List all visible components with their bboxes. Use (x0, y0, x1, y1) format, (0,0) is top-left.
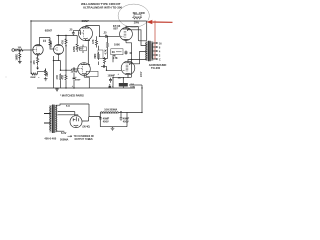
T1 core (53, 105, 54, 134)
resistor R3 470K plate load (49, 38, 51, 49)
callout circle highlight (118, 4, 149, 27)
callout resistor R-fb zigzag (132, 17, 141, 19)
resistor R13 100K (107, 42, 109, 49)
svg-text:6SN7: 6SN7 (82, 19, 90, 23)
driver cathode link vertical (88, 41, 90, 65)
svg-text:(5U4G): (5U4G) (83, 126, 91, 129)
grid wire lower KT66 (103, 66, 121, 70)
KT66 plate wire to OPT (126, 27, 147, 41)
junction dots (30, 20, 142, 118)
power transformer T1 body underlay (49, 105, 56, 133)
B+ riser from filter (141, 85, 143, 112)
resistor R9 47K (65, 74, 67, 81)
svg-text:47K: 47K (61, 40, 64, 45)
tube V3b driver lower (78, 63, 91, 76)
HV secondary wires to plates (58, 112, 79, 117)
resistor R1 100 (18, 49, 24, 51)
svg-text:30: 30 (112, 50, 115, 54)
input coupling cap (15, 49, 18, 52)
KT66 lower screen (130, 52, 147, 66)
cap C7 40MF (99, 116, 102, 121)
red arrow annotation (147, 20, 173, 24)
resistor R6 47K splitter plate (65, 36, 67, 46)
ground mid left (44, 79, 48, 81)
left B+ sub-rail (57, 35, 78, 37)
cathode loop box lower driver (86, 71, 98, 76)
T2 secondary (152, 43, 153, 59)
svg-text:47K: 47K (61, 75, 64, 80)
input jack J1 (12, 49, 15, 52)
ground input (18, 60, 22, 63)
speck (5, 76, 8, 79)
tube KT66 lower (121, 61, 135, 75)
resistor R7 47K (60, 74, 62, 81)
resistor R10 470K (76, 36, 78, 52)
cap C2 100MF (73, 73, 76, 83)
cap on cathode line (125, 51, 128, 55)
V2 cathode chain (54, 56, 61, 88)
V1 plate wire (40, 38, 51, 45)
svg-text:5 V: 5 V (66, 104, 70, 108)
svg-text:25MF: 25MF (30, 77, 36, 79)
svg-text:22K: 22K (46, 72, 49, 77)
cap C4 lower coupling (61, 68, 78, 71)
wire box to riser (129, 84, 142, 86)
cap C5 coupling upper KT66 (100, 35, 120, 38)
svg-text:807: 807 (113, 27, 118, 31)
rectifier output B+ (82, 117, 89, 121)
ground bottom rail (55, 88, 59, 91)
svg-text:* MATCHED PAIRS: * MATCHED PAIRS (60, 93, 84, 97)
cap C6 lower coupling (101, 65, 105, 68)
resistor box 360 (80, 47, 87, 51)
cap on bottom rail (109, 84, 112, 88)
svg-text:OUTPUT TUBES: OUTPUT TUBES (75, 139, 94, 141)
svg-text:4.7K: 4.7K (104, 49, 107, 54)
svg-text:470K: 470K (50, 41, 53, 47)
svg-text:400-0-400: 400-0-400 (44, 137, 56, 141)
resistor R2 1MEG (19, 50, 21, 60)
ground filter (111, 128, 115, 130)
red highlight line down transformer (154, 21, 156, 60)
tube KT66 upper (120, 28, 133, 41)
svg-text:45V: 45V (118, 76, 122, 79)
arrow to cathodes (68, 135, 73, 137)
box component right (111, 49, 123, 55)
svg-text:200MA: 200MA (60, 138, 68, 142)
T1 secondary (56, 105, 57, 131)
T2 secondary taps (152, 43, 157, 59)
callout boxed value (134, 14, 141, 17)
svg-text:450V: 450V (123, 121, 129, 124)
svg-text:4.7K: 4.7K (113, 57, 118, 60)
bottom rail (37, 87, 135, 89)
cathode resistor R4 470 with arrow (37, 54, 39, 65)
T2 core (149, 41, 150, 61)
splitter plate node to coupling cap (65, 46, 67, 60)
wire to V1 grid (23, 49, 33, 51)
svg-text:47K: 47K (56, 75, 59, 80)
driver plate wire (86, 26, 100, 37)
cap C8 40MF (120, 117, 123, 121)
cathode bias black box R14 (119, 83, 128, 87)
svg-text:TO-300: TO-300 (151, 66, 161, 70)
KT66 cathodes join (113, 43, 132, 88)
wire fb node to R8 (38, 69, 46, 72)
filter wires (100, 112, 142, 128)
feedback resistor horizontal (31, 21, 38, 75)
svg-text:6.3V: 6.3V (61, 131, 67, 135)
svg-text:6SN7: 6SN7 (45, 29, 53, 33)
svg-text:TO CATHODES OF: TO CATHODES OF (74, 135, 95, 138)
resistor R12 47K (98, 52, 100, 60)
svg-text:100MF: 100MF (108, 75, 116, 78)
svg-text:360: 360 (79, 47, 84, 51)
box cap 8MF (98, 50, 103, 59)
filament loop to rectifier (56, 104, 101, 117)
svg-text:470K: 470K (73, 46, 76, 52)
cathode bypass cap (109, 78, 112, 83)
direct coupling wire to V2 grid (50, 48, 54, 51)
svg-text:100MF: 100MF (71, 71, 79, 74)
cap C3 upper coupling (72, 31, 81, 36)
svg-text:470: 470 (33, 60, 36, 65)
output transformer T2 body underlay (146, 41, 154, 61)
tube V3a driver upper (79, 27, 93, 41)
filter choke L1 (100, 112, 118, 113)
svg-text:100K: 100K (114, 44, 120, 47)
rectifier V4 5U4G (70, 116, 82, 128)
power transformer T1 primary (50, 107, 51, 131)
cap mark (44, 40, 45, 42)
tube V2 6SN7b splitter (54, 45, 64, 55)
svg-text:.25: .25 (103, 32, 107, 35)
V2 plate wire up to rail (58, 36, 60, 44)
KT66 upper screen tap (128, 30, 147, 46)
svg-text:ULTRALINEAR WITH TO-300: ULTRALINEAR WITH TO-300 (83, 6, 122, 10)
output transformer T2 primary (146, 43, 147, 61)
svg-text:.05MF: .05MF (74, 80, 81, 82)
AC input stubs (44, 114, 51, 124)
svg-text:450V: 450V (103, 121, 109, 124)
svg-text:400V: 400V (140, 71, 143, 77)
filter choke L1 underlay (100, 112, 118, 114)
svg-text:10H-200MA: 10H-200MA (104, 109, 117, 112)
svg-text:47K: 47K (92, 39, 95, 44)
feedback wire horizontal (31, 20, 147, 22)
mid wires (99, 36, 108, 65)
resistor R11 47K grid upper KT66 (96, 36, 98, 47)
KT66 lower plate wire (128, 60, 147, 61)
svg-text:1MEG: 1MEG (15, 54, 18, 61)
svg-text:8MF: 8MF (94, 53, 97, 58)
feedback wire right drop to OPT (146, 21, 148, 41)
tube V1 6SN7a (33, 45, 43, 55)
6.3V wire (56, 130, 65, 132)
resistor R8 22K (45, 69, 47, 77)
